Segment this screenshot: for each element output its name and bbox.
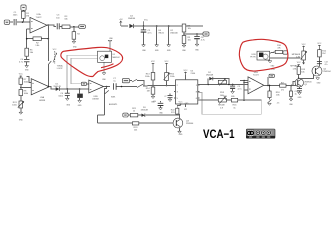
svg-text:LOOP: LOOP <box>57 68 63 70</box>
svg-text:47u: 47u <box>277 102 280 104</box>
svg-text:VCC: VCC <box>184 70 189 72</box>
svg-text:VCC: VCC <box>179 102 184 104</box>
svg-text:RELAY: RELAY <box>218 104 225 107</box>
svg-text:MPSA18: MPSA18 <box>290 65 299 68</box>
svg-text:TL072: TL072 <box>36 17 43 19</box>
svg-text:MPSA18: MPSA18 <box>292 53 301 56</box>
svg-text:1N4148: 1N4148 <box>141 110 149 112</box>
svg-text:U3A: U3A <box>40 96 45 99</box>
svg-text:MAT-02: MAT-02 <box>113 56 121 59</box>
svg-text:1M: 1M <box>26 15 29 17</box>
svg-text:VCC: VCC <box>19 74 24 76</box>
svg-text:R4: R4 <box>77 34 79 36</box>
svg-text:1N4148: 1N4148 <box>206 75 214 77</box>
svg-text:LM358: LM358 <box>39 100 46 102</box>
svg-text:VCC: VCC <box>144 19 149 21</box>
svg-text:VCC: VCC <box>317 43 322 45</box>
svg-text:VCA−1: VCA−1 <box>203 127 235 141</box>
svg-text:LM4040: LM4040 <box>170 33 178 35</box>
svg-text:LM358: LM358 <box>92 98 99 100</box>
svg-text:VCC: VCC <box>165 61 170 63</box>
svg-text:C14: C14 <box>153 101 156 103</box>
svg-text:A9/SW11: A9/SW11 <box>109 103 118 106</box>
svg-text:U1A: U1A <box>36 13 41 16</box>
svg-text:47k: 47k <box>281 90 284 92</box>
svg-text:VCC: VCC <box>151 61 156 63</box>
svg-text:VCC: VCC <box>302 44 307 46</box>
svg-text:78L05: 78L05 <box>158 33 165 35</box>
svg-text:VC2: VC2 <box>184 109 187 111</box>
svg-text:2N3904: 2N3904 <box>323 71 331 73</box>
svg-text:TL072: TL072 <box>253 74 260 76</box>
svg-text:R15: R15 <box>271 69 274 71</box>
svg-text:1N4148: 1N4148 <box>53 86 61 88</box>
svg-text:2N3904: 2N3904 <box>186 123 194 125</box>
svg-text:1N4004: 1N4004 <box>128 18 136 20</box>
svg-text:R17: R17 <box>281 82 284 84</box>
svg-text:PhTR: PhTR <box>250 56 256 58</box>
svg-text:C7: C7 <box>164 96 166 98</box>
svg-text:VCC: VCC <box>297 62 302 64</box>
svg-text:1M: 1M <box>147 91 150 93</box>
svg-text:47u: 47u <box>325 64 328 66</box>
svg-text:TW1A: TW1A <box>57 65 63 68</box>
